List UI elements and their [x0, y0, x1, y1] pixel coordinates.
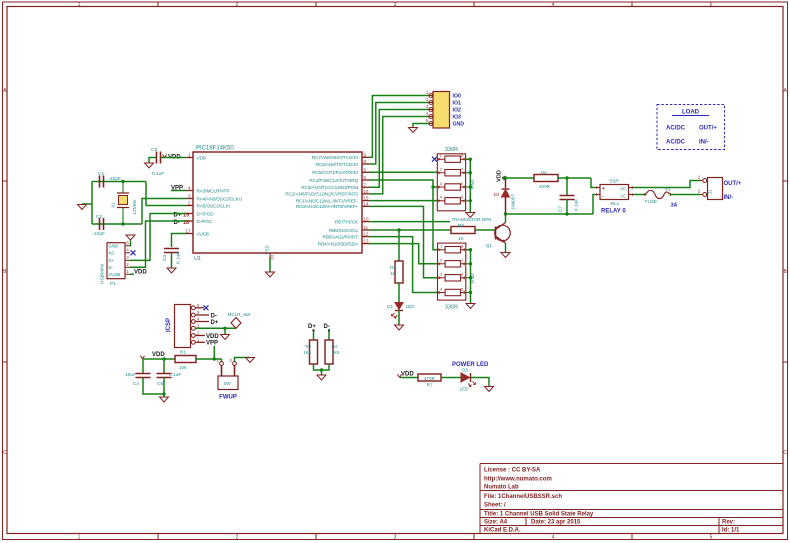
- svg-text:RELAY 0: RELAY 0: [601, 209, 626, 215]
- connector J1 output: [698, 175, 723, 200]
- junction crystal top: [121, 180, 124, 183]
- ground right of FWUP: [246, 358, 255, 363]
- wire IO2 net pin7: [369, 110, 429, 188]
- svg-text:P1: P1: [110, 281, 116, 287]
- svg-text:R4: R4: [332, 344, 338, 349]
- svg-text:OUT/+: OUT/+: [724, 181, 742, 187]
- svg-text:D-: D-: [324, 324, 330, 330]
- svg-text:2: 2: [126, 262, 129, 267]
- svg-text:3A: 3A: [671, 203, 678, 209]
- svg-text:22pF: 22pF: [94, 231, 105, 237]
- junction collector node: [504, 212, 507, 215]
- svg-text:B: B: [784, 269, 788, 275]
- svg-text:5: 5: [426, 118, 429, 123]
- svg-text:15: 15: [364, 196, 370, 201]
- wire VPP stub: [171, 190, 187, 192]
- wire collector net to relay: [506, 213, 594, 215]
- svg-text:A: A: [784, 88, 788, 94]
- wire D3 to ground: [471, 378, 490, 387]
- svg-text:7: 7: [461, 258, 464, 263]
- wire relay to J1 pin1: [634, 181, 701, 188]
- wire relay coil plus: [591, 178, 595, 188]
- svg-text:RC6/AN8/TX/T13CKI: RC6/AN8/TX/T13CKI: [316, 162, 358, 167]
- ground below caps: [160, 397, 169, 402]
- svg-text:R7: R7: [427, 383, 433, 388]
- svg-text:Date: 23 apr 2015: Date: 23 apr 2015: [531, 520, 581, 526]
- wire pin11 to base resistor: [369, 229, 451, 231]
- svg-text:330R: 330R: [445, 147, 458, 153]
- power port VDD relay: [497, 170, 506, 182]
- svg-text:VDD: VDD: [497, 170, 503, 182]
- ground below J2: [409, 128, 418, 133]
- wire join to ground: [321, 370, 323, 375]
- wire IO3 net pin16: [369, 117, 429, 194]
- svg-text:R6: R6: [541, 171, 547, 176]
- svg-text:1K5: 1K5: [332, 350, 340, 355]
- svg-text:3: 3: [440, 272, 443, 277]
- no-connect X on USB NC pin: [131, 250, 136, 255]
- junction pin6 wire RN1 row3: [431, 185, 434, 188]
- svg-text:PIC18F14K50: PIC18F14K50: [196, 146, 234, 152]
- wire VDD rail down C4: [142, 359, 144, 374]
- svg-text:0.1uF: 0.1uF: [152, 171, 164, 177]
- svg-text:RC1/AN5/C12IN1-/INT1/VREF-: RC1/AN5/C12IN1-/INT1/VREF-: [296, 198, 359, 203]
- label D+ at pin19: [174, 213, 190, 219]
- svg-text:1N4007: 1N4007: [511, 194, 516, 211]
- svg-text:C4: C4: [133, 381, 139, 387]
- svg-text:RC7/AN9/SDO/T13CKI: RC7/AN9/SDO/T13CKI: [312, 155, 358, 160]
- svg-text:1K: 1K: [390, 271, 397, 276]
- svg-text:D-: D-: [211, 313, 217, 319]
- svg-text:6: 6: [364, 175, 367, 180]
- svg-text:D3: D3: [462, 368, 468, 373]
- svg-text:2: 2: [236, 2, 239, 8]
- svg-text:C5: C5: [151, 147, 157, 153]
- svg-text:1: 1: [126, 269, 129, 274]
- svg-text:RC2/AN6/P1D/C12IN2/CVREF/INT2: RC2/AN6/P1D/C12IN2/CVREF/INT2: [285, 192, 358, 197]
- svg-text:AC/DC: AC/DC: [666, 140, 686, 146]
- wire pin12 to RN2 row4: [369, 237, 438, 293]
- U1 VSS pin 20: [265, 245, 275, 260]
- wire R3 R4 join: [314, 364, 330, 370]
- svg-text:3: 3: [394, 2, 397, 8]
- svg-text:4: 4: [440, 286, 443, 291]
- connector ICSP 6-pin: [175, 303, 201, 348]
- svg-text:RB5/AN11/RX/DT: RB5/AN11/RX/DT: [323, 234, 359, 239]
- wire base resistor to Q1: [475, 229, 496, 231]
- svg-text:VPP: VPP: [206, 341, 218, 347]
- svg-text:D+: D+: [109, 258, 115, 263]
- svg-text:5: 5: [461, 286, 464, 291]
- svg-text:LED: LED: [406, 304, 416, 309]
- label D+ node R3: [308, 324, 316, 332]
- svg-text:R3: R3: [305, 344, 311, 349]
- wire FWUP right to ground: [235, 358, 251, 362]
- power port VDD power led: [398, 372, 415, 378]
- svg-text:http://www.numato.com: http://www.numato.com: [484, 477, 552, 483]
- wire VDD to R7: [400, 377, 418, 379]
- svg-text:Title: 1 Channel USB Solid Sta: Title: 1 Channel USB Solid State Relay: [484, 512, 594, 518]
- wire ICSP pin4 stub: [195, 321, 209, 323]
- wire IO1 net pin8: [369, 103, 429, 165]
- wire Q1 collector up: [505, 214, 507, 223]
- wire relay coil minus: [593, 195, 595, 215]
- wire fuse to J1 pin2: [670, 194, 701, 196]
- svg-text:Numato Lab: Numato Lab: [484, 485, 519, 491]
- svg-text:9: 9: [364, 152, 367, 157]
- wire D+ net: [130, 214, 187, 261]
- svg-text:5: 5: [364, 167, 367, 172]
- svg-text:5: 5: [126, 241, 129, 246]
- svg-text:13: 13: [364, 239, 370, 244]
- svg-text:FWUP: FWUP: [219, 395, 237, 401]
- svg-text:VUSB: VUSB: [109, 272, 121, 277]
- wire R7 to D3: [441, 377, 461, 379]
- svg-text:MCLR_SW: MCLR_SW: [228, 312, 252, 317]
- svg-text:KiCad E.D.A.: KiCad E.D.A.: [484, 528, 521, 534]
- wire OSC2 to pin3: [142, 199, 187, 225]
- svg-text:17: 17: [185, 228, 191, 233]
- svg-text:4: 4: [126, 248, 129, 253]
- wire ICSP pin2 stub: [195, 335, 205, 337]
- transistor Q1 NPN: [486, 223, 510, 249]
- microcontroller U1 PIC18F14K50 body: [193, 152, 362, 253]
- wire ground stub crystal: [82, 203, 92, 205]
- svg-text:IO2: IO2: [453, 108, 461, 114]
- wire ICSP pin5 stub: [195, 314, 209, 316]
- svg-text:IO1: IO1: [453, 101, 461, 107]
- svg-text:AC: AC: [620, 193, 626, 198]
- svg-text:RC4/P1B/C12OUT/SRQ: RC4/P1B/C12OUT/SRQ: [309, 178, 358, 183]
- wire left cap rail: [91, 182, 93, 225]
- svg-text:1: 1: [698, 175, 701, 181]
- svg-text:D-/PGC: D-/PGC: [197, 219, 213, 224]
- svg-text:R1: R1: [180, 350, 186, 355]
- svg-text:4: 4: [552, 2, 555, 8]
- capacitor C5 0.1uF: [151, 147, 164, 177]
- svg-text:+: +: [602, 186, 605, 192]
- svg-text:2: 2: [188, 200, 191, 205]
- junction R5 tap: [397, 228, 400, 231]
- svg-text:22pF: 22pF: [110, 176, 121, 182]
- ground below RN2: [466, 304, 475, 309]
- svg-text:D+/PGD: D+/PGD: [197, 211, 215, 216]
- USB connector P1 USBMINI: [100, 241, 131, 287]
- LOAD note box: [657, 105, 725, 150]
- wire MCLR to ground: [224, 328, 226, 334]
- svg-text:C: C: [3, 450, 7, 456]
- svg-text:1K: 1K: [458, 236, 465, 241]
- svg-text:RA5/OSC1/CLKI: RA5/OSC1/CLKI: [197, 203, 230, 208]
- U1 right side pins: [285, 152, 369, 246]
- svg-text:AC/DC: AC/DC: [666, 126, 686, 132]
- title block: [480, 464, 783, 534]
- svg-text:16: 16: [364, 189, 370, 194]
- wire R3 top: [313, 331, 315, 341]
- ground below C3: [167, 268, 176, 273]
- label D- at pin18: [174, 220, 190, 226]
- svg-text:1: 1: [440, 244, 443, 249]
- svg-text:14: 14: [364, 201, 370, 206]
- wire caps bottom rail: [143, 378, 164, 395]
- svg-text:1: 1: [188, 152, 191, 157]
- ground left of crystal: [78, 205, 87, 210]
- svg-text:SW: SW: [223, 381, 231, 386]
- svg-text:RC3/AN7/P1C/C12IN3/PGM: RC3/AN7/P1C/C12IN3/PGM: [301, 185, 358, 190]
- svg-text:7: 7: [364, 182, 367, 187]
- wire D1 to ground: [398, 311, 400, 326]
- svg-text:TRANSISTOR-NPN: TRANSISTOR-NPN: [452, 217, 492, 222]
- svg-text:2: 2: [426, 97, 429, 102]
- svg-text:12MHz: 12MHz: [132, 199, 138, 215]
- svg-text:3: 3: [188, 193, 191, 198]
- wire VDD to R6: [502, 177, 534, 179]
- ground below R3 R4: [317, 375, 326, 380]
- svg-text:VDD: VDD: [197, 155, 207, 160]
- resistor R5 1K: [390, 261, 403, 283]
- wire J2 GND: [413, 124, 429, 128]
- svg-text:IN/-: IN/-: [724, 195, 734, 201]
- no-connect X ICSP pin6: [204, 305, 209, 310]
- U1 left side pins: [185, 152, 242, 236]
- wire VDD to pin1: [161, 157, 187, 159]
- svg-text:VDD: VDD: [206, 334, 219, 340]
- junction VPP node: [213, 357, 216, 360]
- svg-text:U1: U1: [194, 256, 201, 262]
- svg-text:2: 2: [230, 358, 233, 363]
- power flag VDD at U1 pin1: [163, 155, 182, 161]
- svg-text:11: 11: [364, 225, 369, 230]
- junction crystal bottom: [121, 222, 124, 225]
- svg-text:10: 10: [364, 217, 370, 222]
- wire VSS to ground: [269, 258, 271, 272]
- svg-text:0.1uF: 0.1uF: [574, 199, 580, 211]
- svg-text:C6: C6: [157, 381, 163, 387]
- svg-text:IO3: IO3: [453, 115, 461, 121]
- ground below RN1: [466, 213, 475, 218]
- ground above USB pin5: [126, 235, 135, 240]
- ground below D1: [395, 325, 404, 330]
- svg-text:C: C: [783, 450, 787, 456]
- svg-text:2: 2: [236, 535, 239, 541]
- svg-text:Sheet: /: Sheet: /: [484, 503, 506, 509]
- svg-text:470R: 470R: [424, 376, 436, 381]
- wire RN2 common rail: [466, 248, 473, 304]
- junction bottom rail: [162, 392, 165, 395]
- junction MCLR gnd tap: [223, 327, 226, 330]
- svg-text:7: 7: [461, 167, 464, 172]
- svg-text:RC0/AN4/C12IN+/INT0/VREF+: RC0/AN4/C12IN+/INT0/VREF+: [296, 204, 359, 209]
- svg-text:D+: D+: [308, 324, 316, 330]
- svg-text:1K5: 1K5: [303, 350, 311, 355]
- capacitor C2 22pF: [94, 214, 105, 237]
- svg-text:5: 5: [710, 535, 713, 541]
- ground below MCLR: [221, 335, 230, 340]
- no-connect X RN1 pin1: [432, 157, 437, 162]
- wire R1 to FWUP node: [196, 358, 222, 360]
- svg-text:D+: D+: [211, 320, 219, 326]
- svg-text:GND: GND: [109, 244, 119, 249]
- svg-text:RC5/CCP1/P1A/T0CKI: RC5/CCP1/P1A/T0CKI: [312, 170, 358, 175]
- svg-text:3: 3: [126, 255, 129, 260]
- relay RL1 solid state: [595, 179, 634, 207]
- svg-text:330R: 330R: [445, 305, 458, 311]
- svg-text:0.1uF: 0.1uF: [169, 372, 181, 378]
- wire R5 to D1: [398, 283, 400, 302]
- svg-text:5: 5: [710, 2, 713, 8]
- svg-text:12: 12: [364, 232, 370, 237]
- labels IO0-IO3 GND: [453, 94, 465, 128]
- wire OSC1 to pin2: [146, 182, 187, 206]
- capacitor C3 0.1uF: [162, 249, 182, 265]
- fuse F1 3A: [645, 187, 678, 209]
- ground right of D3: [485, 387, 494, 392]
- capacitor C7 0.1uF: [558, 178, 580, 214]
- svg-text:F1: F1: [665, 187, 671, 192]
- svg-text:LOAD: LOAD: [682, 110, 700, 116]
- svg-text:C2: C2: [96, 214, 102, 220]
- junction VDD diode: [504, 176, 507, 179]
- svg-text:NC: NC: [109, 251, 115, 256]
- wire pin10 RB7: [369, 221, 450, 223]
- wire R4 top: [328, 331, 330, 341]
- svg-text:VUSB: VUSB: [197, 231, 209, 236]
- resistor network RN2 330R: [438, 243, 477, 300]
- testpoint MCLR_SW diamond: [228, 312, 252, 328]
- wire C3 to ground: [171, 253, 173, 269]
- svg-text:10uF: 10uF: [125, 372, 136, 378]
- resistor R1 10K: [175, 350, 196, 371]
- wire crystal top net: [92, 181, 146, 183]
- wire ICSP pin6 stub: [195, 307, 204, 309]
- svg-text:D2: D2: [494, 192, 500, 197]
- svg-text:VDD: VDD: [134, 269, 147, 275]
- wire pin13 to RN2 row2: [369, 244, 438, 264]
- svg-text:0.1uF: 0.1uF: [176, 252, 182, 264]
- svg-text:RA4/AN3/OSC2/CLKO: RA4/AN3/OSC2/CLKO: [197, 196, 243, 201]
- svg-text:100R: 100R: [539, 184, 551, 189]
- svg-text:VDD: VDD: [401, 372, 414, 378]
- wire RN1 row3 stub: [433, 186, 437, 188]
- svg-text:SSR: SSR: [609, 179, 619, 184]
- wire pin15 to RN1 row4: [369, 200, 437, 202]
- diode D2 1N4007 flyback: [494, 178, 516, 214]
- svg-text:ICSP: ICSP: [166, 318, 172, 332]
- svg-text:RB7/TX/CK: RB7/TX/CK: [335, 219, 359, 224]
- ground left of C5: [145, 163, 154, 168]
- svg-text:4: 4: [426, 111, 429, 116]
- svg-text:1: 1: [78, 535, 81, 541]
- wire IO0 net pin9: [369, 96, 429, 158]
- svg-text:R8: R8: [458, 223, 464, 228]
- capacitor C6 0.1uF: [157, 372, 182, 387]
- wire Q1 emitter to ground: [505, 243, 507, 253]
- svg-text:2: 2: [698, 189, 701, 195]
- svg-text:FUSE: FUSE: [645, 199, 657, 204]
- header J2 5-pin: [426, 90, 450, 128]
- svg-text:3: 3: [440, 181, 443, 186]
- svg-text:R5: R5: [390, 265, 396, 270]
- svg-text:4: 4: [440, 195, 443, 200]
- svg-text:RB4/AN10/SDI/SDA: RB4/AN10/SDI/SDA: [318, 241, 359, 246]
- svg-text:IN/-: IN/-: [699, 140, 709, 146]
- svg-text:8: 8: [364, 159, 367, 164]
- svg-text:GND: GND: [453, 122, 465, 128]
- svg-text:D-: D-: [109, 265, 114, 270]
- svg-text:Rev:: Rev:: [722, 520, 735, 526]
- svg-text:IO0: IO0: [453, 94, 461, 100]
- junction R3 R4: [320, 368, 323, 371]
- wire D- net: [130, 221, 187, 267]
- svg-text:3: 3: [394, 535, 397, 541]
- wire ICSP pin1 stub: [195, 341, 205, 343]
- wire pin14 to RN2 row3: [369, 206, 438, 277]
- label VPP at U1 pin4: [171, 186, 183, 192]
- svg-text:10K: 10K: [179, 365, 188, 370]
- svg-text:License : CC BY-SA: License : CC BY-SA: [484, 468, 541, 474]
- label D- node R4: [324, 324, 331, 332]
- svg-text:5: 5: [461, 195, 464, 200]
- svg-text:USBMINI: USBMINI: [100, 264, 106, 284]
- wire pin11 tap down to R5: [398, 230, 400, 261]
- svg-text:Q1: Q1: [486, 243, 493, 248]
- junction C7 bottom: [565, 212, 568, 215]
- LED D1: [387, 303, 415, 319]
- svg-text:C3: C3: [162, 255, 168, 261]
- svg-text:POWER LED: POWER LED: [452, 362, 489, 368]
- ground below Q1: [501, 253, 510, 258]
- svg-text:8: 8: [461, 244, 464, 249]
- svg-text:4: 4: [552, 535, 555, 541]
- ground below U1: [266, 272, 275, 277]
- svg-text:J1: J1: [708, 189, 713, 194]
- crystal X1 12MHz: [111, 182, 139, 225]
- svg-text:D1: D1: [387, 304, 393, 309]
- wire ICSP pin3 to MCLR: [195, 327, 236, 329]
- resistor network RN1 330R: [437, 153, 476, 211]
- svg-text:C1: C1: [98, 171, 104, 177]
- wire VPP net down: [213, 346, 215, 359]
- pushbutton SW1 FWUP: [217, 358, 238, 390]
- wire R6 to relay node: [558, 177, 591, 179]
- power port VDD bottom left: [141, 352, 166, 359]
- svg-text:File: 1ChannelUSBSSR.sch: File: 1ChannelUSBSSR.sch: [484, 494, 562, 500]
- svg-text:1: 1: [78, 2, 81, 8]
- wire C5 to ground: [149, 158, 157, 164]
- svg-text:1: 1: [426, 90, 429, 95]
- wire cap C6 down: [163, 359, 165, 374]
- wire to ground bottom: [163, 394, 165, 397]
- svg-text:C7: C7: [558, 206, 564, 212]
- capacitor C1 22pF: [98, 171, 121, 188]
- svg-text:2: 2: [440, 258, 443, 263]
- svg-text:VDD: VDD: [152, 352, 165, 358]
- resistor R8 base 1K: [451, 223, 475, 241]
- svg-text:Id: 1/1: Id: 1/1: [722, 528, 740, 534]
- LED D3 power: [460, 368, 476, 392]
- wire pin5 to RN1 row2: [369, 171, 437, 173]
- wire RN1 common rail: [466, 158, 472, 213]
- wire USB GND up: [129, 241, 132, 246]
- resistor R3 1K5: [303, 340, 317, 364]
- svg-text:X1: X1: [111, 202, 117, 208]
- svg-text:Size: A4: Size: A4: [484, 520, 508, 526]
- svg-text:OUT/+: OUT/+: [699, 126, 717, 132]
- svg-text:VSS: VSS: [265, 245, 270, 254]
- svg-text:6: 6: [461, 272, 464, 277]
- resistor R7 470R: [418, 374, 441, 388]
- svg-text:4: 4: [188, 185, 191, 190]
